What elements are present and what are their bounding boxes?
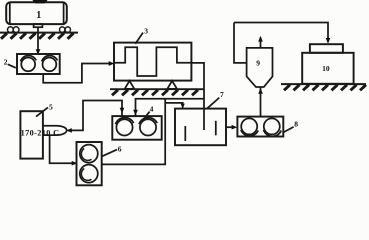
roll circle top of 6 xyxy=(80,145,98,163)
roll circle bottom of 6 xyxy=(80,165,98,183)
svg-text:4: 4 xyxy=(150,104,154,113)
roller circle left of 4 xyxy=(116,119,132,135)
wire tank 7 to pump 8 xyxy=(226,126,235,128)
rail hatching xyxy=(1,33,74,39)
burner 5 vessel xyxy=(20,111,43,158)
wire box 2 to furnace 3 xyxy=(43,64,111,83)
ground line under furnace 3 xyxy=(110,88,205,90)
furnace box 3 xyxy=(114,43,191,81)
tank 7 internal bar left xyxy=(184,126,186,141)
silo 10 body xyxy=(302,53,353,84)
roller circle left of 2 xyxy=(21,58,35,72)
svg-text:5: 5 xyxy=(49,102,53,111)
cyclone vent line xyxy=(260,38,262,48)
svg-text:10: 10 xyxy=(322,64,330,73)
tank car left end cap line xyxy=(9,3,11,24)
tank car 1 body xyxy=(6,2,67,24)
tank car top dome (black) xyxy=(32,0,47,3)
roll arc bottom of 6 xyxy=(81,169,91,181)
burner nozzle xyxy=(43,126,67,135)
tank car right end cap line xyxy=(63,3,65,24)
ground line under silo 10 xyxy=(281,83,366,85)
wire pump 8 up to cyclone 9 xyxy=(260,88,262,117)
wheel xyxy=(65,27,70,32)
arrowhead right into furnace 3 xyxy=(109,61,115,66)
silo 10 hat xyxy=(310,44,343,53)
furnace support triangle left xyxy=(125,81,135,89)
wire burner to roll mill 6 xyxy=(50,135,74,163)
arrowhead up vent xyxy=(258,36,263,42)
roller top arc left of 2 xyxy=(20,56,36,62)
tank box 7 xyxy=(175,109,226,146)
roller top arc right of 2 xyxy=(42,56,58,62)
roller circle right of 8 xyxy=(264,118,280,134)
label 8 tick xyxy=(283,127,294,133)
svg-text:170-210 C: 170-210 C xyxy=(21,128,60,137)
silo ground hatching xyxy=(284,85,366,91)
roll mill box 6 xyxy=(77,142,102,185)
arrowhead left into nozzle xyxy=(66,128,72,133)
label 5 tick xyxy=(36,107,48,116)
arrowhead down into mill 4 xyxy=(133,110,138,116)
roller circle right of 4 xyxy=(140,119,156,135)
svg-text:8: 8 xyxy=(294,119,298,128)
svg-text:6: 6 xyxy=(118,145,122,154)
wheel xyxy=(13,27,19,33)
label 3 tick xyxy=(135,33,143,44)
svg-text:9: 9 xyxy=(256,59,260,68)
tank 7 internal bar right xyxy=(215,121,217,136)
cyclone inlet wire from overhead xyxy=(234,23,247,63)
wheel xyxy=(60,27,65,32)
mill box 4 xyxy=(112,116,161,140)
roller bottom arc right of 8 xyxy=(264,130,282,137)
wire branch to mill 4 xyxy=(136,99,205,116)
roller top arc left of 4 xyxy=(116,118,134,125)
svg-text:1: 1 xyxy=(36,10,41,21)
label 7 tick xyxy=(207,98,219,109)
rail ground line under tank xyxy=(0,32,78,34)
furnace ground hatching xyxy=(112,90,198,96)
roller circle left of 8 xyxy=(241,118,257,134)
roller circle right of 2 xyxy=(43,58,57,72)
arrowhead up into cyclone cone xyxy=(258,88,263,94)
arrowhead down into tank 7 xyxy=(181,104,185,109)
wire branch down to roll mill 6 xyxy=(102,99,165,165)
wire tank 1 to box 2 xyxy=(37,27,39,53)
svg-text:3: 3 xyxy=(144,26,148,35)
wire branch into tank 7 top xyxy=(165,103,183,108)
pump box 8 xyxy=(237,117,283,137)
roller top arc right of 4 xyxy=(139,118,157,125)
wire furnace 3 exit down into tank 7 xyxy=(191,63,204,130)
arrowhead down into silo hat xyxy=(326,38,331,44)
pump box 2 xyxy=(17,54,60,74)
label 6 tick xyxy=(102,150,118,157)
arrowhead down into box 2 xyxy=(36,49,41,55)
label 2 tick xyxy=(8,64,16,68)
svg-text:7: 7 xyxy=(220,90,224,99)
arrowhead right into roll mill 6 xyxy=(72,161,78,166)
furnace 3 internal baffle wave xyxy=(114,47,191,76)
label 4 tick xyxy=(143,112,150,121)
roll arc top of 6 xyxy=(81,149,91,161)
arrowhead right into pump 8 xyxy=(232,125,238,130)
overhead wire to silo 10 xyxy=(234,23,328,41)
wire into burner nozzle xyxy=(68,101,122,131)
tank car bottom outlet xyxy=(34,24,43,27)
furnace support triangle right xyxy=(167,81,177,89)
svg-text:2: 2 xyxy=(4,57,8,66)
arrowhead down into mill 4 left xyxy=(120,108,125,114)
cyclone 9 body xyxy=(247,48,273,87)
wheel xyxy=(7,27,13,33)
roller bottom arc left of 8 xyxy=(241,130,258,136)
